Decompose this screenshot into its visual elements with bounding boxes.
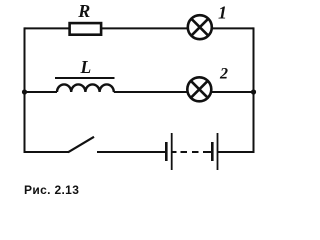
wire: top branch right segment <box>212 27 254 29</box>
wire: battery stub before cell 2 <box>203 151 212 153</box>
svg-text:2: 2 <box>219 66 228 83</box>
svg-text:L: L <box>79 57 91 77</box>
inductor L1 core line <box>55 77 115 79</box>
wire: right vertical rail <box>253 27 255 153</box>
wire: bottom branch right segment <box>218 151 255 153</box>
caption Рис. 2.13 <box>24 183 79 197</box>
wire: middle branch middle segment <box>114 91 188 93</box>
battery cell 2 negative plate (short) <box>211 142 214 161</box>
wire: middle branch left segment <box>25 91 58 93</box>
lamp 2 (circle with X) <box>187 77 211 101</box>
wire: top branch left segment <box>25 27 70 29</box>
wire: battery stub after cell 1 <box>172 151 177 153</box>
wire: middle branch right segment <box>212 91 254 93</box>
svg-text:R: R <box>77 1 90 21</box>
switch S1 blade (open) <box>68 137 94 153</box>
lamp 1 (circle with X) <box>188 15 212 39</box>
wire: top branch middle segment <box>102 27 188 29</box>
node: left junction dot <box>22 89 27 94</box>
inductor L1 coil <box>57 84 114 92</box>
svg-text:1: 1 <box>218 2 227 22</box>
resistor R1 body <box>70 23 102 35</box>
switch S1 fixed contact wire <box>97 151 167 153</box>
node: right junction dot <box>251 89 256 94</box>
wire: dashed link between cells <box>181 151 188 153</box>
battery cell 1 negative plate (short) <box>165 142 168 161</box>
wire: bottom branch left segment <box>24 151 69 153</box>
battery cell 1 positive plate (long) <box>171 133 173 170</box>
wire: left vertical rail <box>24 27 26 153</box>
battery cell 2 positive plate (long) <box>217 133 219 170</box>
